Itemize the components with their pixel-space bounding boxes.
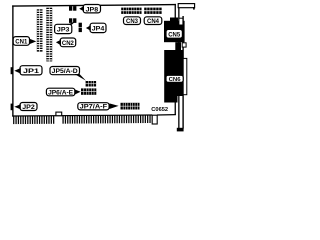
svg-text:C0652: C0652	[151, 107, 168, 113]
svg-text:CN6: CN6	[169, 77, 181, 83]
svg-text:CN3: CN3	[126, 19, 139, 25]
svg-text:CN2: CN2	[62, 40, 75, 47]
svg-text:CN5: CN5	[168, 33, 181, 39]
svg-text:JP4: JP4	[92, 26, 105, 33]
svg-text:CN4: CN4	[147, 19, 160, 25]
svg-text:JP6/A-E: JP6/A-E	[48, 89, 73, 96]
svg-text:JP2: JP2	[22, 104, 35, 111]
svg-text:JP8: JP8	[86, 6, 99, 13]
svg-text:JP1: JP1	[23, 68, 40, 75]
svg-text:JP7/A-F: JP7/A-F	[80, 104, 108, 111]
svg-text:JP3: JP3	[57, 27, 70, 34]
svg-text:CN1: CN1	[15, 39, 28, 46]
svg-text:JP5/A-D: JP5/A-D	[52, 68, 79, 75]
